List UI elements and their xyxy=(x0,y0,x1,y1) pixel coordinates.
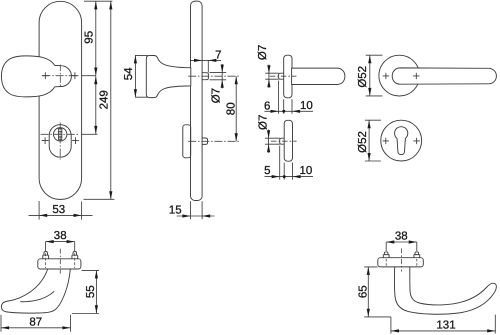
svg-text:53: 53 xyxy=(52,204,65,216)
dimension 80 (axis to cylinder) xyxy=(225,76,237,141)
screw right xyxy=(414,252,420,258)
knob body profile xyxy=(1,269,70,313)
svg-text:55: 55 xyxy=(85,285,97,298)
cylinder oval cutout xyxy=(49,125,71,158)
handle base plate xyxy=(378,258,424,267)
screw right xyxy=(72,252,78,259)
svg-text:7: 7 xyxy=(215,49,221,61)
lever rose front view xyxy=(357,55,496,96)
dimension Ø52 (rose) xyxy=(366,55,383,96)
lever handle side view xyxy=(292,68,345,84)
knob base plate xyxy=(38,259,81,269)
svg-text:95: 95 xyxy=(83,31,95,44)
cylinder horizontal centerline xyxy=(41,133,80,135)
centerline xyxy=(270,75,297,77)
knob front view (egg shape with bump) xyxy=(1,56,71,97)
svg-text:Ø7: Ø7 xyxy=(257,45,269,60)
screw left xyxy=(43,252,49,259)
rosette circle xyxy=(381,120,422,161)
fixing peg xyxy=(280,138,285,144)
lever rose side view xyxy=(257,45,345,114)
screw cross left xyxy=(383,73,389,79)
svg-text:5: 5 xyxy=(264,165,270,177)
key rosette front view xyxy=(357,120,422,161)
rose bar xyxy=(284,55,292,98)
svg-text:131: 131 xyxy=(436,319,455,331)
backplate side view xyxy=(146,1,240,200)
svg-text:38: 38 xyxy=(395,231,408,243)
svg-text:Ø52: Ø52 xyxy=(357,131,369,153)
lever handle front view xyxy=(392,68,496,84)
key rosette side view xyxy=(258,115,314,180)
dimension Ø52 (rosette) xyxy=(365,120,381,161)
hidden screw lines in base xyxy=(46,253,75,268)
base centerline xyxy=(59,249,61,274)
dimension Ø7 (peg) xyxy=(265,73,279,79)
dimension Ø7 (peg) xyxy=(265,138,280,144)
dimension (handle axis to cylinder, unlabeled) xyxy=(82,76,97,134)
knob vertical centerline xyxy=(59,65,61,88)
knob neck crease xyxy=(20,291,54,301)
screw cross right xyxy=(413,73,419,79)
base centerline xyxy=(401,248,403,271)
fixing peg xyxy=(279,73,284,79)
screw cross left (cylinder row) xyxy=(42,137,49,144)
screw cross left (knob row) xyxy=(42,72,49,79)
spindle centerline xyxy=(188,75,240,77)
backplate outline xyxy=(39,1,82,199)
plate side profile xyxy=(191,1,203,200)
svg-text:65: 65 xyxy=(357,285,369,298)
dimension 65 (handle height) xyxy=(364,267,391,317)
dimension 249 (overall height) xyxy=(84,1,115,199)
dimensions 5 and 10 (peg and rosette depth) xyxy=(280,146,293,180)
screw cross right (cylinder row) xyxy=(72,137,79,144)
screw cross left xyxy=(383,138,389,144)
rose circle xyxy=(379,55,420,96)
cylinder circle xyxy=(54,128,67,141)
dimension 95 (top to handle axis) xyxy=(82,1,112,76)
dimension 87 (knob length) xyxy=(1,315,71,332)
svg-text:10: 10 xyxy=(300,100,313,112)
lever handle profile view (bottom right) xyxy=(357,231,496,334)
spindle peg side view xyxy=(202,73,209,80)
screw cross right (knob row) xyxy=(72,72,79,79)
dimension 15 (plate depth) xyxy=(169,201,215,219)
cylinder keyway xyxy=(59,129,62,140)
svg-text:Ø7: Ø7 xyxy=(258,115,270,130)
dimension 38 (screw distance) xyxy=(386,242,417,251)
svg-text:87: 87 xyxy=(29,317,42,329)
screw left xyxy=(383,252,389,258)
centerline xyxy=(271,140,297,142)
svg-text:54: 54 xyxy=(123,67,135,80)
dimension 55 (knob height) xyxy=(72,270,99,313)
dimension 54 (knob diameter side view) xyxy=(123,55,148,97)
cylinder peg side view xyxy=(202,138,208,144)
knob side profile xyxy=(146,56,191,98)
svg-text:15: 15 xyxy=(169,205,182,217)
cylinder vertical centerline xyxy=(59,122,61,159)
cylinder escutcheon side view xyxy=(183,125,191,158)
dimension Ø7 (spindle square) xyxy=(210,64,227,103)
dimension 53 (plate width) xyxy=(29,201,93,220)
svg-text:6: 6 xyxy=(264,100,270,112)
knob horizontal centerline xyxy=(42,75,78,77)
dimension 7 (spindle protrusion) xyxy=(190,49,221,72)
dimension 131 (handle length) xyxy=(391,315,495,334)
dimensions 6 and 10 (peg and rose depth) xyxy=(279,81,292,114)
svg-text:Ø7: Ø7 xyxy=(211,88,223,103)
hidden screw lines in base xyxy=(386,259,417,266)
svg-text:38: 38 xyxy=(54,230,67,242)
lever handle body (neck, grip and hook) xyxy=(394,267,496,314)
rosette bar xyxy=(284,120,292,161)
euro profile keyhole xyxy=(395,127,408,155)
svg-text:249: 249 xyxy=(99,90,111,109)
cylinder centerline xyxy=(188,140,240,142)
security plate front view (backplate) xyxy=(1,1,81,199)
svg-text:Ø52: Ø52 xyxy=(357,66,369,88)
svg-text:80: 80 xyxy=(225,102,237,115)
dimension 38 (screw distance) xyxy=(46,242,75,251)
svg-text:10: 10 xyxy=(300,165,313,177)
screw cross right xyxy=(413,138,419,144)
knob profile view (bottom left) xyxy=(1,230,99,331)
